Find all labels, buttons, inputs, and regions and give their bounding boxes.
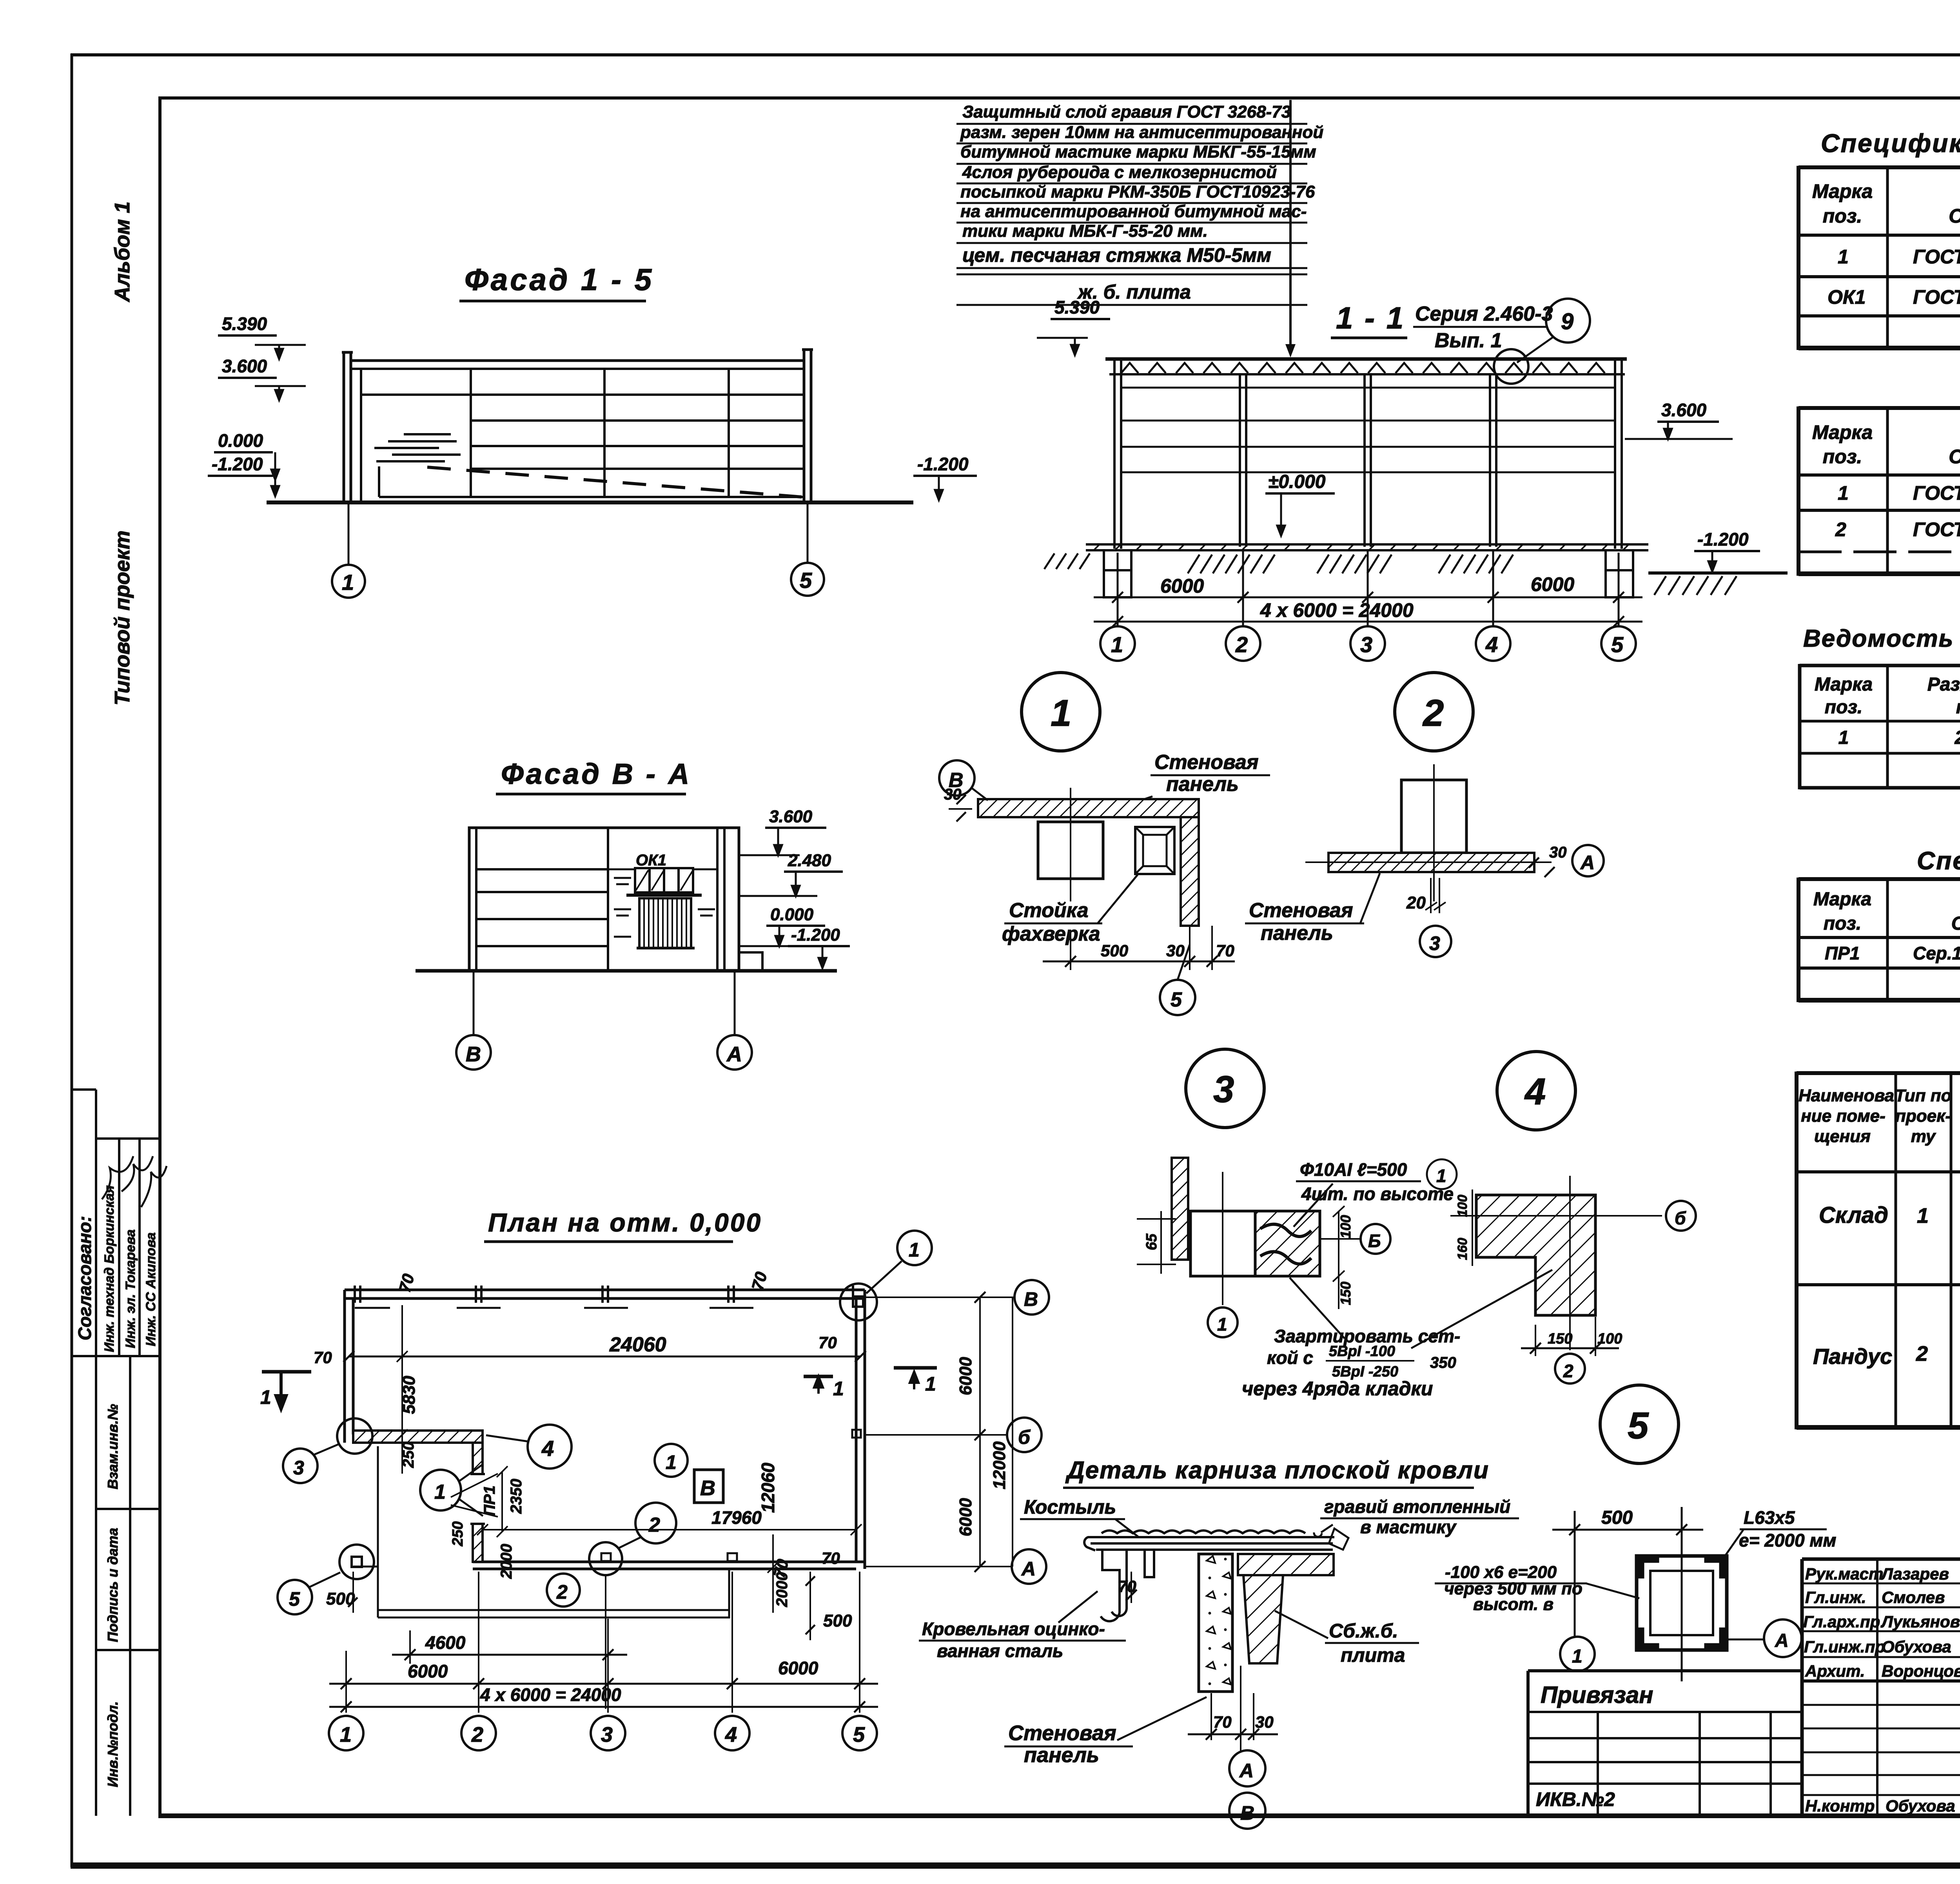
svg-text:5: 5 <box>800 568 812 593</box>
svg-text:Обозначение: Обозначение <box>1949 446 1960 468</box>
svg-text:6000: 6000 <box>1160 575 1204 597</box>
svg-text:Инж. эл. Токарева: Инж. эл. Токарева <box>123 1229 138 1348</box>
svg-text:160: 160 <box>1455 1238 1470 1260</box>
node 1 corner panel vertical <box>1181 817 1199 926</box>
plan dim 24060 <box>349 1356 860 1358</box>
plan circled corner top right + node 1 ref <box>840 1284 877 1320</box>
plan node ref circle 1 (uzel) <box>420 1470 461 1510</box>
node 5 axis circle 1 <box>1560 1637 1595 1671</box>
svg-text:2: 2 <box>1422 692 1444 734</box>
svg-text:2.480: 2.480 <box>788 851 831 870</box>
staff table rows <box>1802 1583 1960 1585</box>
table F header <box>1798 1086 1960 1146</box>
staff table columns <box>1876 1559 1878 1816</box>
svg-text:Смолев: Смолев <box>1882 1588 1945 1607</box>
svg-text:6000: 6000 <box>1531 573 1574 595</box>
node 1 axis circle 5 bottom <box>1160 980 1195 1015</box>
svg-text:ПР1: ПР1 <box>481 1485 498 1516</box>
node 4 leader to mesh note <box>1411 1270 1552 1348</box>
plan circled corner left <box>339 1545 374 1579</box>
node 2 axis lines <box>1433 764 1435 901</box>
svg-text:1: 1 <box>1917 1204 1929 1228</box>
svg-text:панель: панель <box>1166 773 1239 796</box>
svg-text:1: 1 <box>260 1386 271 1408</box>
svg-text:3: 3 <box>601 1723 613 1746</box>
node 4 axis circle 2 <box>1555 1354 1585 1384</box>
svg-text:Привязан: Привязан <box>1541 1682 1653 1708</box>
node 1 axis circle B left <box>939 760 975 796</box>
svg-text:Подпись и дата: Подпись и дата <box>105 1528 121 1642</box>
inner frame bottom (thick) <box>158 1813 1960 1818</box>
svg-text:5: 5 <box>853 1723 865 1746</box>
node 5 big circle <box>1600 1385 1679 1463</box>
svg-text:ИКВ.№2: ИКВ.№2 <box>1536 1788 1615 1810</box>
svg-text:1: 1 <box>1111 632 1123 657</box>
svg-text:2: 2 <box>1235 632 1248 657</box>
node 2 column <box>1401 780 1466 853</box>
svg-text:цем. песчаная стяжка М50-5мм: цем. песчаная стяжка М50-5мм <box>962 244 1271 266</box>
svg-text:1: 1 <box>1838 727 1849 748</box>
facade: right pylon <box>803 350 806 502</box>
svg-text:Кровельная оцинко-: Кровельная оцинко- <box>922 1619 1105 1639</box>
svg-text:посыпкой марки РКМ-350Б ГОСТ10: посыпкой марки РКМ-350Б ГОСТ10923-76 <box>960 182 1315 201</box>
svg-text:поз.: поз. <box>1824 913 1861 934</box>
facade B-A plinth step <box>739 952 762 971</box>
svg-text:5: 5 <box>289 1588 300 1610</box>
svg-text:Защитный слой гравия ГОСТ 3268: Защитный слой гравия ГОСТ 3268-73 <box>962 102 1291 121</box>
node 1 wall panel (plan) <box>978 799 1199 817</box>
svg-text:А: А <box>1021 1558 1036 1580</box>
table B header <box>1812 421 1960 468</box>
svg-text:1: 1 <box>1217 1314 1227 1335</box>
svg-text:500: 500 <box>1101 941 1128 960</box>
svg-text:-1.200: -1.200 <box>917 454 969 474</box>
svg-text:±0.000: ±0.000 <box>1268 471 1326 492</box>
node 4 axis circle b <box>1666 1201 1696 1231</box>
section wall joint lines <box>1121 388 1616 472</box>
svg-text:фахверка: фахверка <box>1002 923 1100 945</box>
plan ramp outline <box>377 1446 379 1617</box>
svg-text:-1.200: -1.200 <box>791 925 840 945</box>
svg-text:гравий втопленный: гравий втопленный <box>1324 1496 1510 1517</box>
section right ground level <box>1648 571 1788 575</box>
svg-text:в мастику: в мастику <box>1360 1517 1457 1537</box>
svg-text:поз.: поз. <box>1823 205 1862 227</box>
svg-text:Лазарев: Лазарев <box>1880 1565 1949 1583</box>
svg-text:Инж. технад Боркинская: Инж. технад Боркинская <box>102 1185 117 1352</box>
node 5 column section <box>1637 1507 1764 1681</box>
cornice slab <box>1238 1554 1334 1575</box>
svg-text:2: 2 <box>1916 1342 1928 1365</box>
svg-text:Ф10АI ℓ=500: Ф10АI ℓ=500 <box>1300 1159 1407 1180</box>
svg-text:1: 1 <box>434 1481 446 1503</box>
svg-text:70: 70 <box>822 1549 840 1567</box>
plan top wall <box>345 1290 865 1569</box>
svg-text:Типовой проект: Типовой проект <box>111 530 134 705</box>
plan dim 6000 row <box>329 1683 878 1685</box>
node 3 column block <box>1191 1211 1255 1276</box>
svg-text:3: 3 <box>1213 1068 1234 1110</box>
svg-text:Н.контр: Н.контр <box>1805 1797 1875 1815</box>
facade B-A building outline <box>469 828 739 971</box>
svg-text:30: 30 <box>1549 844 1567 861</box>
node 4 dims 150 100 <box>1535 1325 1536 1356</box>
svg-text:250: 250 <box>450 1521 466 1547</box>
svg-text:кой с: кой с <box>1267 1347 1313 1368</box>
svg-text:В: В <box>1024 1288 1038 1310</box>
facade: left pylon <box>342 350 813 502</box>
facade: ground line <box>267 500 913 504</box>
svg-text:Стойка: Стойка <box>1009 899 1089 922</box>
svg-text:1: 1 <box>1838 246 1849 268</box>
svg-text:1: 1 <box>1436 1166 1446 1186</box>
svg-text:проек-: проек- <box>1895 1106 1951 1126</box>
svg-text:панель: панель <box>1261 922 1333 945</box>
svg-text:А: А <box>1239 1760 1254 1782</box>
svg-text:А: А <box>1580 852 1595 874</box>
section ground hatching <box>1044 553 1513 573</box>
plan dim 17960 <box>483 1529 856 1530</box>
svg-text:Гл.арх.пр: Гл.арх.пр <box>1803 1612 1880 1631</box>
outer border bottom (thick) <box>71 1862 1960 1869</box>
facade: panel joints horizontal <box>361 393 804 396</box>
svg-text:Альбом 1: Альбом 1 <box>111 201 134 303</box>
section floor double line <box>1086 543 1648 546</box>
plan right wall <box>855 1298 858 1562</box>
node 3 masonry block with mesh <box>1255 1211 1320 1276</box>
svg-text:-1.200: -1.200 <box>212 454 263 474</box>
svg-text:6000: 6000 <box>956 1498 975 1536</box>
svg-text:4600: 4600 <box>425 1632 466 1653</box>
svg-text:70: 70 <box>1216 941 1234 960</box>
svg-text:70: 70 <box>818 1333 837 1352</box>
facade B-A wall shading marks <box>614 878 715 937</box>
node 3 axis vertical line <box>1222 1172 1223 1305</box>
svg-text:Рук.маст: Рук.маст <box>1805 1565 1883 1583</box>
svg-text:кладке мм.: кладке мм. <box>1956 697 1960 718</box>
node 1 axis line <box>1070 788 1071 901</box>
svg-text:плита: плита <box>1341 1644 1405 1666</box>
section foundations <box>1104 550 1633 597</box>
svg-text:150: 150 <box>1338 1282 1354 1305</box>
svg-text:ГОСТ 8781-82: ГОСТ 8781-82 <box>1913 482 1960 504</box>
node 5 dim 500 <box>1574 1511 1576 1636</box>
svg-text:100: 100 <box>1597 1331 1622 1347</box>
plan column ticks top wall <box>355 1286 853 1308</box>
node 2 axis circle A <box>1572 845 1604 876</box>
svg-text:щения: щения <box>1814 1127 1871 1146</box>
svg-text:высот. в: высот. в <box>1473 1595 1553 1614</box>
svg-text:3: 3 <box>1429 932 1440 954</box>
svg-text:Взам.инв.№: Взам.инв.№ <box>105 1404 121 1489</box>
svg-text:3.600: 3.600 <box>1661 400 1707 420</box>
svg-text:350: 350 <box>1430 1354 1456 1371</box>
svg-text:150: 150 <box>1548 1331 1572 1347</box>
svg-text:ту: ту <box>1911 1127 1936 1146</box>
plan section mark right <box>804 1375 833 1378</box>
plan node ref circle 3 left <box>283 1449 318 1483</box>
node 4 masonry L-shape <box>1476 1195 1595 1315</box>
svg-text:Гл.инж.пр: Гл.инж.пр <box>1804 1637 1885 1656</box>
svg-text:Марка: Марка <box>1813 889 1871 910</box>
svg-text:100: 100 <box>1455 1195 1470 1217</box>
svg-text:тики марки МБК-Г-55-20 мм.: тики марки МБК-Г-55-20 мм. <box>962 221 1208 241</box>
svg-text:Фасад В - А: Фасад В - А <box>501 758 691 790</box>
plan right axis circles <box>865 1296 1014 1298</box>
svg-text:L63х5: L63х5 <box>1744 1507 1795 1528</box>
svg-text:Костыль: Костыль <box>1024 1496 1116 1518</box>
svg-text:Марка: Марка <box>1812 180 1873 202</box>
svg-text:2350: 2350 <box>508 1479 525 1514</box>
svg-text:е= 2000 мм: е= 2000 мм <box>1739 1530 1836 1550</box>
plan node ref circle 4 <box>528 1425 572 1469</box>
svg-text:Марка: Марка <box>1815 674 1873 695</box>
svg-text:Сб.ж.б.: Сб.ж.б. <box>1329 1620 1398 1642</box>
svg-text:ние поме-: ние поме- <box>1801 1106 1886 1126</box>
svg-text:65: 65 <box>1143 1233 1160 1250</box>
svg-text:Склад: Склад <box>1819 1202 1888 1228</box>
plan right vertical dims <box>979 1297 981 1567</box>
svg-text:1: 1 <box>833 1378 844 1400</box>
facade axis 5 leader + circle <box>807 502 809 563</box>
svg-text:разм. зерен 10мм на антисептир: разм. зерен 10мм на антисептированной <box>960 123 1323 142</box>
svg-text:5: 5 <box>1628 1405 1649 1447</box>
svg-text:битумной мастике марки МБКГ-55: битумной мастике марки МБКГ-55-15мм <box>960 142 1316 161</box>
table A grid <box>1798 166 1960 350</box>
facade: panel joints vertical <box>470 369 472 497</box>
svg-text:5: 5 <box>1171 988 1182 1011</box>
svg-text:Согласовано:: Согласовано: <box>74 1216 95 1340</box>
svg-text:В: В <box>700 1476 715 1500</box>
svg-text:Фасад 1 - 5: Фасад 1 - 5 <box>465 262 654 297</box>
plan node ref circle 5 left <box>278 1580 312 1614</box>
facade: door shading strokes <box>374 434 461 461</box>
svg-text:12000: 12000 <box>990 1441 1009 1489</box>
table E row <box>1825 942 1960 963</box>
cornice axis circles A B <box>1229 1750 1265 1786</box>
plan room tag B box <box>694 1470 723 1503</box>
svg-text:Стеновая: Стеновая <box>1154 751 1258 774</box>
plan left wall <box>343 1290 346 1443</box>
node 3 wall strip <box>1172 1158 1188 1260</box>
svg-text:Ведомость проемов ворот·: Ведомость проемов ворот· <box>1803 625 1960 652</box>
svg-text:4 х 6000 = 24000: 4 х 6000 = 24000 <box>480 1685 621 1705</box>
cornice steel drip profile <box>1084 1537 1154 1621</box>
svg-text:2350 х 2400: 2350 х 2400 <box>1955 727 1960 748</box>
svg-text:4: 4 <box>1485 632 1498 657</box>
svg-text:поз.: поз. <box>1825 697 1862 718</box>
svg-text:Деталь карниза плоской кровли: Деталь карниза плоской кровли <box>1065 1457 1489 1484</box>
outer border left <box>71 54 73 1867</box>
staff table texts <box>1803 1565 1960 1815</box>
svg-text:3.600: 3.600 <box>769 807 813 826</box>
node 3 axis circle B <box>1361 1224 1390 1254</box>
table F grid <box>1797 1072 1960 1429</box>
svg-text:1: 1 <box>925 1373 936 1395</box>
svg-text:3.600: 3.600 <box>222 356 267 376</box>
svg-text:2: 2 <box>556 1581 568 1603</box>
plan section mark left <box>262 1370 311 1374</box>
facade: ramp dashed line <box>427 467 802 497</box>
svg-text:А: А <box>726 1043 742 1066</box>
svg-text:Вып. 1: Вып. 1 <box>1435 329 1502 352</box>
svg-text:0.000: 0.000 <box>218 430 263 451</box>
node 1 fachwerk column <box>1038 822 1103 879</box>
facade B-A ground line <box>416 969 837 973</box>
svg-text:5.390: 5.390 <box>222 314 267 334</box>
svg-text:поз.: поз. <box>1823 446 1862 468</box>
svg-text:Размер проема в: Размер проема в <box>1927 674 1960 695</box>
svg-text:Обухова: Обухова <box>1886 1797 1955 1815</box>
svg-text:1: 1 <box>342 570 354 595</box>
svg-text:1: 1 <box>1051 692 1071 734</box>
section axis circles <box>1100 626 1636 661</box>
svg-text:5ВрI -100: 5ВрI -100 <box>1329 1343 1395 1360</box>
node 1 bottom dims <box>1070 933 1071 970</box>
svg-text:12060: 12060 <box>758 1463 778 1513</box>
node 3 big circle <box>1186 1049 1264 1128</box>
node 2 wall panel <box>1328 853 1534 872</box>
svg-text:ГОСТ 14624-69: ГОСТ 14624-69 <box>1913 246 1960 268</box>
svg-text:4: 4 <box>725 1723 737 1746</box>
svg-text:6000: 6000 <box>956 1357 975 1395</box>
svg-text:Марка: Марка <box>1812 421 1873 443</box>
node 2 big circle <box>1395 673 1473 751</box>
inner frame top <box>160 96 1960 100</box>
svg-text:0.000: 0.000 <box>770 905 814 924</box>
svg-text:3: 3 <box>293 1457 304 1479</box>
plan hatched partition vertical <box>473 1443 483 1474</box>
svg-text:1: 1 <box>1572 1646 1583 1667</box>
svg-text:через 4ряда кладки: через 4ряда кладки <box>1242 1378 1433 1400</box>
svg-text:1 - 1: 1 - 1 <box>1336 301 1405 335</box>
svg-text:Обухова: Обухова <box>1882 1637 1951 1656</box>
facade: parapet band <box>351 359 804 362</box>
svg-text:Специф икация перемычек: Специф икация перемычек <box>1917 847 1960 875</box>
svg-text:б: б <box>1675 1208 1686 1228</box>
inner frame left <box>158 96 162 1818</box>
svg-text:2000: 2000 <box>498 1544 515 1579</box>
svg-text:2: 2 <box>1563 1361 1573 1381</box>
svg-text:В: В <box>466 1043 481 1066</box>
svg-text:3: 3 <box>1360 632 1372 657</box>
svg-text:ОК1: ОК1 <box>636 852 666 869</box>
svg-text:Спецификация элементов заполн: Спецификация элементов заполнения проемо… <box>1821 129 1960 158</box>
LEFT APPROVAL STAMP BAND <box>73 1090 158 1816</box>
plan hatched partition horizontal <box>353 1431 483 1443</box>
plan dim 4x6000 row <box>329 1706 878 1708</box>
table A rows <box>1828 244 1960 308</box>
svg-text:Инж. СС Акипова: Инж. СС Акипова <box>143 1232 158 1346</box>
svg-text:6000: 6000 <box>408 1661 448 1681</box>
svg-text:1: 1 <box>666 1451 677 1473</box>
svg-text:100: 100 <box>1338 1215 1354 1238</box>
node 1 channel profile <box>1135 827 1174 874</box>
svg-text:20: 20 <box>1406 893 1426 912</box>
svg-text:Пандус: Пандус <box>1813 1344 1892 1369</box>
svg-text:В: В <box>949 769 964 792</box>
plan bottom dims <box>346 1572 860 1713</box>
table B grid <box>1798 406 1960 576</box>
svg-text:17960: 17960 <box>711 1507 762 1528</box>
svg-text:1: 1 <box>1838 482 1849 504</box>
svg-text:2: 2 <box>648 1514 660 1536</box>
plan door jambs <box>470 1473 485 1475</box>
section roof slab <box>1105 359 1627 374</box>
svg-text:Б: Б <box>1368 1231 1381 1251</box>
svg-text:500: 500 <box>823 1611 852 1630</box>
svg-text:5.390: 5.390 <box>1054 297 1100 317</box>
svg-text:ванная сталь: ванная сталь <box>937 1641 1063 1661</box>
section dimension row 1 <box>1094 550 1642 627</box>
svg-text:70: 70 <box>1213 1713 1232 1731</box>
svg-text:4слоя рубероида с мелкозернист: 4слоя рубероида с мелкозернистой <box>962 163 1277 182</box>
node 2 axis circle 3 <box>1420 926 1451 957</box>
table E grid <box>1798 878 1960 1002</box>
facade B-A door <box>637 898 695 948</box>
node 4 big circle <box>1497 1052 1575 1130</box>
plan room tag 1 <box>655 1444 688 1477</box>
svg-text:Наименова: Наименова <box>1798 1086 1894 1105</box>
svg-text:1: 1 <box>909 1239 920 1261</box>
svg-text:Сер.1.138-10 вып.1: Сер.1.138-10 вып.1 <box>1913 943 1960 963</box>
cornice dims 70 30 <box>1210 1693 1212 1740</box>
svg-text:6000: 6000 <box>778 1658 818 1678</box>
section columns at axes <box>1114 361 1622 549</box>
plan column marks bottom wall <box>601 1430 861 1561</box>
node 1 big circle <box>1022 673 1100 751</box>
svg-text:9: 9 <box>1561 309 1573 334</box>
svg-text:Гл.инж.: Гл.инж. <box>1805 1588 1866 1607</box>
facade axis 1 leader + circle <box>348 502 350 565</box>
svg-text:Стеновая: Стеновая <box>1249 899 1353 922</box>
svg-text:на антисептированной битумной: на антисептированной битумной мас- <box>960 202 1307 221</box>
svg-text:5: 5 <box>1611 632 1624 657</box>
table C grid <box>1800 664 1960 789</box>
svg-text:30: 30 <box>1255 1713 1274 1731</box>
svg-text:панель: панель <box>1024 1743 1099 1767</box>
svg-text:30: 30 <box>1166 941 1185 960</box>
svg-text:1: 1 <box>340 1723 352 1746</box>
svg-text:ГОСТ 8478-81: ГОСТ 8478-81 <box>1913 519 1960 540</box>
node 4 axis lines <box>1450 1215 1662 1217</box>
svg-text:ГОСТ 12506-81: ГОСТ 12506-81 <box>1913 286 1960 308</box>
table B rows <box>1835 481 1960 540</box>
svg-text:Инв.№подл.: Инв.№подл. <box>105 1701 121 1787</box>
svg-text:Тип по: Тип по <box>1895 1086 1952 1105</box>
svg-text:План на отм. 0,000: План на отм. 0,000 <box>488 1208 762 1237</box>
circle mark at roof corner <box>1494 349 1528 384</box>
svg-text:Стеновая: Стеновая <box>1008 1721 1116 1745</box>
svg-text:500: 500 <box>1601 1507 1633 1528</box>
svg-text:В: В <box>1240 1802 1254 1824</box>
svg-text:Архит.: Архит. <box>1805 1662 1865 1680</box>
plan axis circles bottom <box>329 1716 877 1750</box>
svg-text:4: 4 <box>541 1436 554 1461</box>
svg-text:Воронцов: Воронцов <box>1882 1662 1960 1680</box>
privyazan block <box>1528 1671 1802 1816</box>
facade B-A axis circles <box>473 971 475 1035</box>
svg-text:2: 2 <box>471 1723 483 1746</box>
node 3 axis circle 1 <box>1208 1307 1238 1337</box>
cornice roof band <box>1091 1529 1348 1550</box>
svg-text:ОК1: ОК1 <box>1828 286 1866 308</box>
svg-text:Серия 2.460-3: Серия 2.460-3 <box>1415 303 1553 325</box>
svg-text:4 х 6000 = 24000: 4 х 6000 = 24000 <box>1260 599 1414 621</box>
section detail circle 9 <box>1546 299 1590 343</box>
svg-text:24060: 24060 <box>609 1333 666 1356</box>
svg-text:Обозначение: Обозначение <box>1951 913 1960 934</box>
